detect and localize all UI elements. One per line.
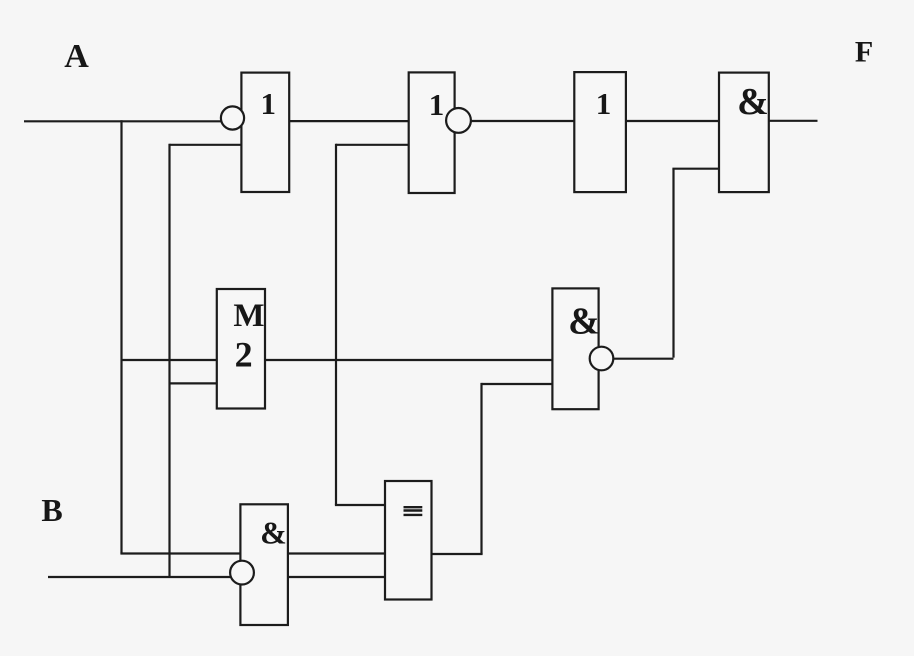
wire: M2 first input rail and M2 output to U5 (y=360) bbox=[122, 359, 553, 361]
svg-text:M: M bbox=[233, 298, 264, 334]
wire: U5 second input horizontal from XNOR output riser bbox=[482, 383, 553, 385]
wire: U2 bubble output to U3 input bbox=[470, 120, 574, 122]
wire: U4 output to F bbox=[769, 120, 818, 122]
wire: U1 output to U2 input bbox=[289, 120, 409, 122]
wire: XNOR output horizontal to riser bbox=[432, 553, 483, 555]
module M2 (majority) box bbox=[217, 289, 265, 409]
svg-text:B: B bbox=[41, 492, 62, 528]
gate U1 (OR "1") box bbox=[241, 73, 289, 192]
wire: vertical riser x=673 from U5 output up to U4 second input bbox=[672, 169, 674, 358]
svg-text:&: & bbox=[260, 515, 287, 551]
inversion bubble at U5 output bbox=[590, 347, 614, 371]
wire: lower AND rail y=553.5 from x=121 tap to XNOR bbox=[120, 552, 385, 554]
wire: U5 bubble output horizontal to riser x=673 bbox=[613, 358, 674, 360]
gate U5 (AND-NOT "&") box bbox=[552, 288, 598, 409]
inversion bubble at U1 input bbox=[221, 106, 244, 129]
svg-text:1: 1 bbox=[596, 86, 612, 121]
gate U7 equivalence symbol (three bars) bbox=[404, 507, 423, 515]
svg-text:&: & bbox=[568, 301, 600, 343]
svg-text:&: & bbox=[737, 81, 769, 123]
wire: XNOR first input horizontal bbox=[335, 504, 385, 506]
wire: net B rail and lower-AND output rail y=577 bbox=[48, 576, 385, 578]
gate U6 (lower AND "&") box bbox=[240, 504, 288, 625]
wire: U3 output to U4 input bbox=[626, 120, 719, 122]
wire: vertical net-B tap x=169 down to B rail bbox=[168, 144, 170, 577]
svg-text:2: 2 bbox=[235, 334, 253, 374]
svg-text:A: A bbox=[64, 38, 89, 75]
wire: M2 second input horizontal bbox=[170, 382, 217, 384]
gate U7 (XNOR "=") box bbox=[385, 481, 432, 600]
wire: vertical x=336 from U2 second input down to XNOR input bbox=[335, 144, 337, 505]
svg-text:F: F bbox=[855, 36, 873, 69]
gate U4 (AND "&") box bbox=[719, 73, 769, 193]
svg-text:1: 1 bbox=[260, 86, 276, 121]
wire: U2 second input horizontal bbox=[336, 144, 409, 146]
inversion bubble at U2 output bbox=[446, 108, 471, 133]
wire: vertical riser x=481 from XNOR output up to U5 input bbox=[480, 383, 482, 554]
gate U3 (buffer "1") box bbox=[574, 72, 626, 192]
gate U2 (OR "1") box bbox=[409, 72, 455, 193]
inversion bubble at U6 input bbox=[230, 561, 254, 585]
wire: vertical net-A tap x=121 down to lower AND gate bbox=[120, 120, 122, 553]
wire: U1 second input horizontal bbox=[170, 144, 242, 146]
svg-text:1: 1 bbox=[429, 87, 445, 122]
wire: net A main horizontal rail bbox=[24, 120, 222, 122]
wire: U4 second input horizontal bbox=[672, 168, 719, 170]
